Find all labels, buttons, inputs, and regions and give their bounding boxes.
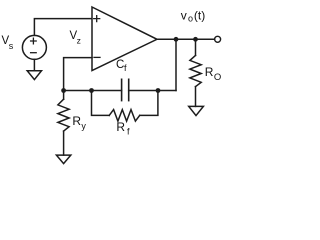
wire node B down to Ro [195, 39, 197, 55]
ground under source [27, 71, 41, 80]
label Ry [72, 114, 86, 131]
wire source top to op-amp + input [34, 19, 92, 36]
wire Ro to ground [195, 87, 197, 107]
wire Rf left branch down [92, 91, 110, 116]
node A (output to feedback) [174, 37, 179, 42]
resistor Ro [190, 55, 201, 86]
node C (inverting input / Ry / Rf) [61, 88, 66, 93]
capacitor Cf [122, 79, 129, 100]
svg-text:(t): (t) [194, 9, 205, 23]
label Rf [116, 120, 130, 136]
ground under Ry [56, 155, 70, 164]
label Ro [205, 65, 221, 83]
svg-text:o: o [188, 13, 193, 23]
wire op-amp inverting input [64, 58, 92, 91]
svg-text:z: z [77, 35, 81, 45]
wire op-amp output [157, 38, 215, 40]
label Vz [70, 30, 81, 45]
voltage source Vs [22, 35, 46, 59]
output terminal vo [215, 36, 221, 42]
node E (Rf right branch) [156, 88, 161, 93]
svg-text:s: s [9, 41, 14, 51]
svg-text:y: y [81, 121, 86, 131]
node D (Rf left branch) [89, 88, 94, 93]
svg-text:R: R [72, 114, 81, 128]
op-amp U1 [92, 7, 157, 71]
node B (output to Ro) [193, 37, 198, 42]
svg-text:R: R [116, 120, 125, 134]
resistor Ry [58, 99, 69, 131]
feedback row wire right segment [129, 90, 176, 92]
svg-text:v: v [181, 9, 187, 23]
label vo(t) [181, 9, 206, 24]
ground under Ro [189, 106, 204, 115]
wire Rf right branch up [140, 91, 158, 116]
feedback row wire left segment [64, 90, 122, 92]
wire Ry to ground [63, 131, 65, 155]
svg-text:R: R [205, 65, 214, 79]
wire source bottom to ground [33, 59, 35, 70]
wire node A down to feedback row [175, 39, 177, 90]
resistor Rf [109, 110, 140, 122]
label Vs [2, 35, 14, 51]
label Cf [116, 59, 127, 73]
wire Ry top [63, 91, 65, 100]
svg-text:O: O [214, 72, 221, 83]
